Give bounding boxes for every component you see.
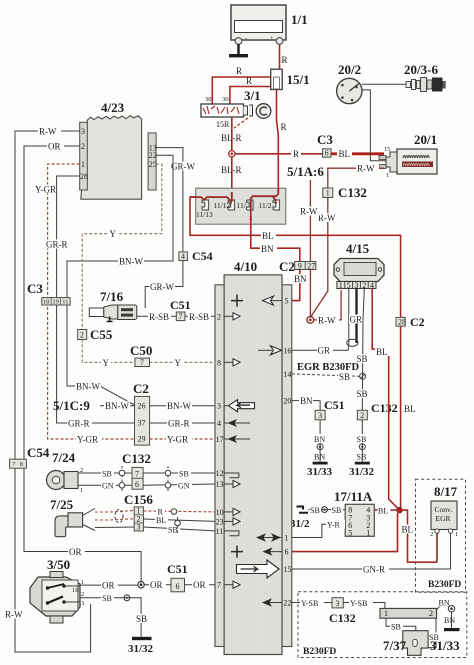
ignition switch 3/1 bbox=[201, 88, 271, 129]
ECU pin 4 bbox=[217, 419, 250, 428]
wire GR 4/15 pin 5 to ECU pin 16 bbox=[292, 289, 349, 356]
svg-text:R-W: R-W bbox=[357, 164, 375, 174]
svg-text:BL: BL bbox=[339, 149, 351, 159]
connector C132 pins 7 6 bbox=[122, 451, 151, 489]
svg-text:11/13: 11/13 bbox=[196, 210, 213, 219]
svg-text:17/11A: 17/11A bbox=[334, 489, 373, 504]
wire GR-W 4/23 pin 13 to temp sensor 7/16 bbox=[145, 148, 196, 308]
svg-text:SB: SB bbox=[339, 372, 350, 382]
wire SB 7/24 to C132/7 to ECU pin 12 bbox=[78, 469, 215, 479]
svg-text:11: 11 bbox=[62, 298, 68, 305]
svg-text:GN-R: GN-R bbox=[363, 565, 385, 575]
wire BN-W 5/1C:9 to C2/26 bbox=[100, 401, 135, 411]
svg-text:R: R bbox=[282, 55, 288, 65]
svg-text:R-SB: R-SB bbox=[149, 312, 169, 322]
svg-text:SB: SB bbox=[391, 623, 401, 632]
svg-text:OR: OR bbox=[193, 580, 206, 590]
svg-text:8: 8 bbox=[20, 461, 23, 468]
wire BL relay pin 4 to node BL bbox=[374, 506, 399, 516]
wire OR 3/50 to node OR bbox=[80, 581, 138, 591]
knock sensor 7/25 bbox=[50, 497, 95, 537]
svg-text:2: 2 bbox=[429, 609, 433, 618]
svg-text:C55: C55 bbox=[90, 327, 113, 342]
wire SB ground 31/2 to relay pin 8 bbox=[308, 505, 345, 515]
svg-text:Y-GR: Y-GR bbox=[35, 185, 56, 195]
EGR converter housing 8/17 (dashed B230FD box) bbox=[416, 479, 466, 592]
svg-text:4: 4 bbox=[181, 252, 185, 261]
svg-text:4: 4 bbox=[217, 419, 221, 428]
wire SB 3/50 to ground 31/32 bbox=[80, 593, 148, 636]
svg-text:31/32: 31/32 bbox=[349, 466, 375, 478]
wire R fuse down to fuse box 5/1A:6 bbox=[277, 90, 287, 193]
ECU pin 22 bbox=[262, 598, 291, 607]
svg-text:31/33: 31/33 bbox=[307, 466, 333, 478]
wire BN ECU pin 20 to C51/3 bbox=[292, 396, 320, 410]
wire BL-R junction to fuse box bbox=[221, 157, 242, 192]
oxygen sensor 7/37 bbox=[383, 631, 428, 656]
svg-text:GN: GN bbox=[102, 482, 114, 491]
svg-text:R: R bbox=[293, 149, 299, 159]
svg-text:-: - bbox=[245, 35, 247, 42]
svg-text:20: 20 bbox=[283, 397, 291, 406]
wire BN C51/3 to ground 31/33 bbox=[313, 420, 327, 462]
svg-text:OR: OR bbox=[48, 142, 61, 152]
wire R-W C132/1 down to node R-W bbox=[310, 198, 339, 318]
svg-text:BL: BL bbox=[404, 404, 416, 414]
svg-text:20/2: 20/2 bbox=[338, 62, 361, 77]
wire R-SB 7/16 to C51/7 to ECU pin 2 bbox=[137, 312, 215, 322]
svg-text:5: 5 bbox=[347, 281, 351, 290]
svg-text:6: 6 bbox=[176, 582, 180, 591]
svg-text:11: 11 bbox=[216, 527, 224, 536]
svg-text:28: 28 bbox=[80, 172, 88, 181]
ECU pin 8 bbox=[217, 358, 240, 367]
shield symbol 7/24 pair (left) bbox=[119, 466, 125, 492]
wire SB dashed EGR B230FD variant to ECU pin 14 bbox=[292, 362, 360, 382]
distributor 20/2 bbox=[337, 62, 362, 104]
svg-text:GR: GR bbox=[318, 346, 331, 356]
svg-text:SB: SB bbox=[357, 389, 368, 399]
svg-text:3: 3 bbox=[318, 411, 322, 420]
wire R junction to connector C3/6 bbox=[235, 149, 323, 159]
wire BL node to ECU pin 6 bbox=[292, 510, 400, 551]
svg-text:BN: BN bbox=[300, 396, 313, 406]
svg-text:22: 22 bbox=[283, 599, 291, 608]
svg-text:2: 2 bbox=[217, 312, 221, 321]
wire Y-SB ECU pin 22 to C132/3 bbox=[292, 598, 332, 608]
wire internal fuse box bus (right) bbox=[251, 188, 278, 211]
connector C3 pin 6 bbox=[317, 132, 333, 158]
wire BL C156/2 to ECU pin 23 bbox=[143, 515, 215, 525]
svg-text:BN: BN bbox=[444, 616, 455, 625]
svg-text:BN: BN bbox=[439, 599, 450, 608]
svg-text:R-W: R-W bbox=[39, 127, 57, 137]
shield symbol 7/25 bbox=[115, 510, 123, 523]
connector C156 pins 1 2 3 bbox=[124, 492, 153, 532]
svg-text:Y-SB: Y-SB bbox=[301, 599, 318, 608]
ECU pin 10 bbox=[216, 508, 240, 517]
svg-text:1/1: 1/1 bbox=[291, 12, 308, 27]
fuse 15/1 bbox=[271, 69, 310, 89]
wire SB C132/2 to ground 31/32 bbox=[356, 420, 369, 462]
EGR converter 8/17 bbox=[430, 501, 458, 538]
svg-text:25: 25 bbox=[149, 160, 157, 169]
ground (battery negative) bbox=[229, 44, 248, 57]
svg-text:R: R bbox=[246, 76, 252, 86]
ignition coil 20/1 bbox=[379, 132, 437, 179]
svg-text:Conv.: Conv. bbox=[435, 505, 453, 514]
connector C54 pins 7 8 bbox=[10, 445, 50, 468]
svg-text:Y: Y bbox=[110, 229, 117, 239]
svg-text:1: 1 bbox=[366, 528, 370, 537]
wire BN fuse 11/3 to C2/9 bbox=[251, 211, 300, 262]
svg-text:Y-R: Y-R bbox=[327, 521, 341, 530]
connector C132 pin 3 bbox=[329, 598, 356, 625]
svg-text:GR-W: GR-W bbox=[150, 282, 174, 292]
wire distributor to spark plugs bbox=[362, 83, 406, 85]
wire BL EGR terminal 2 down bbox=[436, 533, 438, 562]
svg-text:20/3-6: 20/3-6 bbox=[404, 62, 438, 77]
svg-text:7: 7 bbox=[179, 312, 183, 321]
node SB screw joint bbox=[322, 507, 328, 513]
svg-text:Y-GR: Y-GR bbox=[77, 435, 98, 445]
svg-text:C2: C2 bbox=[133, 381, 149, 396]
svg-text:C3: C3 bbox=[317, 132, 333, 147]
svg-text:15R: 15R bbox=[216, 120, 230, 129]
svg-text:C50: C50 bbox=[130, 343, 152, 358]
node BL junction bbox=[396, 507, 402, 513]
ground 31/33 (bottom right) bbox=[430, 628, 460, 653]
svg-text:BN-W: BN-W bbox=[167, 401, 191, 411]
svg-text:2: 2 bbox=[430, 531, 433, 538]
connector C132 pin 1 bbox=[323, 185, 367, 200]
svg-text:4/15: 4/15 bbox=[346, 241, 370, 256]
svg-text:BN-W: BN-W bbox=[119, 257, 143, 267]
battery 1/1 bbox=[231, 5, 308, 44]
wire SB C156/3 to ECU pin 11 bbox=[143, 517, 215, 535]
wire GR 4/15 pin 3 (shielded) bbox=[349, 289, 365, 344]
connector C55 pin 2 bbox=[78, 327, 113, 342]
svg-text:C132: C132 bbox=[122, 451, 151, 466]
svg-text:BN: BN bbox=[294, 274, 307, 284]
svg-text:1: 1 bbox=[285, 534, 289, 543]
svg-text:OR: OR bbox=[150, 580, 163, 590]
svg-text:BL: BL bbox=[378, 506, 388, 515]
svg-text:Y: Y bbox=[103, 358, 110, 368]
svg-text:GR: GR bbox=[350, 315, 363, 325]
svg-text:6: 6 bbox=[135, 480, 139, 489]
svg-text:5/1A:6: 5/1A:6 bbox=[287, 164, 324, 179]
svg-text:13: 13 bbox=[216, 480, 224, 489]
wire GR-R C2/37 to ECU pin 4 bbox=[150, 419, 215, 429]
wire 7/25 to C156 bbox=[95, 511, 134, 528]
wire R battery to fuse 15/1 bbox=[280, 44, 288, 69]
svg-text:10: 10 bbox=[216, 508, 224, 517]
connector C51 pin 6 bbox=[167, 562, 188, 592]
svg-text:C132: C132 bbox=[329, 611, 356, 625]
svg-text:14: 14 bbox=[283, 370, 291, 379]
fuse 11/2 bbox=[259, 200, 280, 210]
wire BL C2/28 down to node BL bbox=[401, 326, 416, 508]
svg-text:C54: C54 bbox=[27, 445, 50, 460]
svg-text:19: 19 bbox=[52, 298, 59, 305]
wire BL node to EGR converter bbox=[400, 510, 438, 562]
svg-text:C156: C156 bbox=[124, 492, 153, 507]
node SB screw joint 3/50 bbox=[124, 595, 130, 601]
instrument cluster 4/23 bbox=[80, 100, 157, 199]
svg-text:B230FD: B230FD bbox=[428, 580, 461, 590]
svg-text:15/1: 15/1 bbox=[287, 72, 310, 87]
svg-text:GR-R: GR-R bbox=[168, 419, 190, 429]
connector oval (distributor pick-up) bbox=[347, 339, 358, 346]
ECU pin 7 bbox=[217, 581, 240, 590]
ECU pin 14 bbox=[283, 370, 291, 379]
svg-text:3: 3 bbox=[81, 600, 84, 607]
wire Y-SB C132/3 to heater bar bbox=[343, 598, 385, 608]
svg-text:EGR: EGR bbox=[436, 514, 451, 523]
wire BL C3/6 to ignition coil terminal 15 bbox=[331, 146, 391, 159]
connector C2 pins 26 37 29 bbox=[133, 381, 150, 445]
svg-text:37: 37 bbox=[138, 418, 146, 427]
wire Y dashed 4/23 pin 25 to C55/2 bbox=[82, 164, 162, 330]
temperature sensor 7/16 bbox=[89, 289, 137, 322]
svg-text:Y-GR: Y-GR bbox=[167, 435, 188, 445]
wire BL 4/15 pin 4 to node BL bbox=[372, 289, 399, 511]
ECU pin 6 bbox=[231, 546, 289, 558]
svg-text:GR-R: GR-R bbox=[68, 419, 90, 429]
svg-text:11/2: 11/2 bbox=[259, 201, 272, 210]
fuse box 5/1A:6 bbox=[196, 164, 325, 224]
svg-text:GR-R: GR-R bbox=[46, 240, 68, 250]
svg-text:18: 18 bbox=[43, 298, 50, 305]
wire BN C2/9 to ECU pin 5 bbox=[292, 270, 307, 301]
svg-text:6: 6 bbox=[325, 149, 329, 158]
ground 31/33 (centre) bbox=[307, 462, 333, 478]
svg-text:R: R bbox=[236, 66, 242, 76]
svg-text:8/17: 8/17 bbox=[434, 484, 458, 499]
svg-text:17: 17 bbox=[216, 435, 224, 444]
svg-text:5: 5 bbox=[285, 297, 289, 306]
svg-text:7/37: 7/37 bbox=[383, 638, 407, 653]
svg-text:3: 3 bbox=[81, 127, 85, 136]
svg-text:3/50: 3/50 bbox=[47, 557, 70, 572]
svg-text:7: 7 bbox=[217, 581, 221, 590]
svg-text:1: 1 bbox=[80, 487, 83, 494]
fuse 11/12 bbox=[214, 200, 235, 210]
node SB / EGR splice bbox=[360, 373, 366, 379]
svg-text:7: 7 bbox=[135, 469, 139, 478]
svg-text:11/12: 11/12 bbox=[214, 201, 231, 210]
svg-text:9: 9 bbox=[298, 261, 302, 270]
svg-text:BL: BL bbox=[156, 516, 166, 525]
svg-text:C54: C54 bbox=[192, 249, 213, 263]
svg-text:R: R bbox=[281, 122, 287, 132]
ECU pin 2 bbox=[217, 312, 240, 321]
svg-text:BN: BN bbox=[314, 453, 325, 462]
svg-text:3: 3 bbox=[336, 599, 340, 608]
wire R-W node to power stage 4/15 pin 1 bbox=[314, 290, 342, 325]
svg-text:SB: SB bbox=[179, 469, 189, 478]
svg-text:R-W: R-W bbox=[5, 610, 23, 620]
rpm sensor 7/24 bbox=[47, 450, 84, 494]
wire Y-GR dashed C2/29 to ECU pin 17 bbox=[150, 435, 215, 445]
svg-text:5/1C:9: 5/1C:9 bbox=[53, 398, 90, 413]
svg-text:SB: SB bbox=[102, 469, 112, 478]
ECU pin 23 bbox=[216, 517, 240, 526]
wire R-W 4/23 pin 3 to throttle switch 3/50 bbox=[4, 127, 91, 653]
svg-text:B230FD: B230FD bbox=[303, 647, 336, 657]
power stage 4/15 bbox=[334, 241, 384, 290]
wire SB heater bar 2 to 7/37 bbox=[428, 618, 441, 647]
svg-text:4: 4 bbox=[370, 281, 374, 290]
svg-text:OR: OR bbox=[102, 581, 115, 591]
ECU pin 16 bbox=[258, 346, 291, 356]
svg-text:BN-W: BN-W bbox=[105, 401, 129, 411]
ground 31/2 bbox=[290, 507, 310, 531]
ECU pin 13 bbox=[216, 480, 240, 489]
svg-text:GN: GN bbox=[178, 482, 190, 491]
svg-text:BL-R: BL-R bbox=[221, 165, 242, 175]
svg-text:R-SB: R-SB bbox=[189, 312, 209, 322]
svg-text:SB: SB bbox=[310, 506, 320, 515]
wire GR-R 4/23 pin 28 to C2/37 bbox=[45, 176, 135, 429]
svg-text:C51: C51 bbox=[167, 562, 188, 576]
svg-text:BN: BN bbox=[261, 244, 274, 254]
svg-text:SB: SB bbox=[332, 506, 342, 515]
connector C51 pin 7 bbox=[170, 298, 191, 321]
wire BN joint to ground 31/33 bbox=[444, 612, 455, 628]
wire BN heater bar 2 to ground joint bbox=[436, 598, 452, 610]
svg-text:18: 18 bbox=[72, 587, 79, 594]
ECU pin 17 bbox=[216, 435, 251, 444]
svg-text:29: 29 bbox=[138, 435, 146, 444]
svg-text:31/2: 31/2 bbox=[290, 518, 310, 530]
svg-text:BN: BN bbox=[314, 435, 325, 444]
svg-text:2: 2 bbox=[80, 331, 84, 340]
wire distributor to coil HT tower bbox=[362, 90, 387, 161]
wire BN-W C2/26 to ECU pin 3 bbox=[150, 401, 215, 411]
ECU pin 11 bbox=[216, 527, 239, 536]
wire internal fuse box bus (left) bbox=[190, 192, 232, 201]
svg-text:BL-R: BL-R bbox=[221, 133, 242, 143]
svg-text:SB: SB bbox=[357, 453, 367, 462]
wire Y dashed C55/2 to C50/7 to ECU pin 8 bbox=[82, 340, 215, 368]
svg-text:30: 30 bbox=[205, 96, 212, 103]
connector C51 pin 3 bbox=[315, 398, 345, 420]
splice 5/1C:9 bbox=[53, 398, 90, 413]
svg-text:1: 1 bbox=[386, 172, 389, 179]
ground 31/32 (bottom left) bbox=[128, 637, 154, 655]
connector C2 pins 9 and 27 bbox=[279, 259, 316, 274]
ECU pin 15 bbox=[237, 560, 292, 578]
ECU pin 5 bbox=[231, 295, 289, 307]
svg-text:2: 2 bbox=[81, 591, 84, 598]
svg-text:5: 5 bbox=[348, 528, 352, 537]
svg-text:C51: C51 bbox=[170, 298, 191, 312]
svg-text:16: 16 bbox=[283, 346, 291, 355]
svg-text:3: 3 bbox=[354, 281, 358, 290]
svg-text:Y: Y bbox=[175, 358, 182, 368]
svg-text:BN-W: BN-W bbox=[76, 382, 100, 392]
svg-text:7/25: 7/25 bbox=[50, 497, 74, 512]
svg-text:20/1: 20/1 bbox=[414, 132, 437, 147]
wire R-W coil terminal 1 to C132/1 bbox=[328, 164, 384, 189]
connector C50 pin 7 bbox=[130, 343, 152, 367]
svg-text:OR: OR bbox=[69, 547, 82, 557]
wire R fuse to ignition switch terminal 30 (right) bbox=[230, 76, 271, 105]
svg-text:C132: C132 bbox=[371, 401, 398, 415]
node OR junction bbox=[138, 582, 144, 588]
svg-text:C2: C2 bbox=[410, 315, 425, 329]
svg-text:C2: C2 bbox=[279, 259, 295, 274]
svg-text:R-W: R-W bbox=[318, 315, 336, 325]
wire Y-GR dashed 4/23 pin 1 to C2/29 bbox=[34, 164, 135, 445]
fuse 11/3 bbox=[237, 200, 254, 222]
wire SB heater bar 1 to 7/37 bbox=[386, 618, 416, 631]
wire SB 4/15 pin 2 down to C132/2 bbox=[356, 289, 369, 411]
wire BN-W 4/23 pin 22 to C3/11 bbox=[67, 155, 173, 297]
svg-text:8: 8 bbox=[217, 358, 221, 367]
svg-text:BL: BL bbox=[402, 525, 414, 535]
svg-text:28: 28 bbox=[398, 318, 406, 327]
svg-text:1: 1 bbox=[455, 531, 458, 538]
relay 17/11A bbox=[334, 489, 374, 537]
svg-text:4/23: 4/23 bbox=[101, 100, 125, 115]
svg-text:22: 22 bbox=[149, 151, 157, 160]
ECU pin 12 bbox=[216, 469, 239, 478]
svg-text:BL: BL bbox=[376, 347, 388, 357]
svg-text:7/24: 7/24 bbox=[52, 450, 76, 465]
svg-text:15: 15 bbox=[283, 565, 291, 574]
svg-text:SB: SB bbox=[102, 594, 112, 603]
svg-text:2: 2 bbox=[362, 281, 366, 290]
ECU pin 20 bbox=[283, 397, 291, 406]
ECU pin 1 bbox=[256, 533, 289, 542]
svg-text:C51: C51 bbox=[324, 398, 345, 412]
connector C3 pins 18 19 11 bbox=[27, 281, 70, 305]
svg-text:C3: C3 bbox=[27, 281, 43, 296]
engine variant box B230FD (bottom) bbox=[298, 592, 467, 658]
svg-text:R-W: R-W bbox=[300, 207, 318, 217]
fuse 11/13 bbox=[196, 200, 213, 219]
svg-text:Y-SB: Y-SB bbox=[350, 599, 367, 608]
svg-text:7: 7 bbox=[140, 358, 144, 367]
svg-text:BL: BL bbox=[262, 231, 274, 241]
wire R-W stub from 5/1A:6 to C2/27 bbox=[299, 180, 321, 262]
node R-W junction bbox=[307, 317, 314, 324]
svg-text:6: 6 bbox=[285, 548, 289, 557]
svg-text:3: 3 bbox=[217, 402, 221, 411]
node junction BL-R / R bbox=[229, 151, 235, 157]
svg-text:31/32: 31/32 bbox=[128, 643, 154, 655]
svg-text:2: 2 bbox=[360, 411, 364, 420]
ECU 4/10 bbox=[215, 259, 292, 655]
svg-text:SB: SB bbox=[357, 435, 367, 444]
shield symbol 7/24 pair (right) bbox=[165, 466, 171, 492]
wire OR node to C51/6 to ECU pin 7 bbox=[144, 580, 215, 590]
wire R-W C2/27 to node R-W bbox=[309, 270, 311, 318]
wire Y-R relay pin 6 to ECU pin 1 bbox=[292, 520, 345, 538]
svg-text:31/33: 31/33 bbox=[430, 638, 460, 653]
wire R fuse to ignition switch terminal 30 (left) bbox=[212, 66, 270, 105]
svg-text:3: 3 bbox=[137, 523, 141, 532]
wire BN-W C3/11 to C2/26 bbox=[67, 305, 135, 405]
oxygen sensor heater bar bbox=[380, 608, 437, 618]
svg-text:2: 2 bbox=[81, 142, 85, 151]
ECU pin 3 bbox=[217, 400, 255, 412]
svg-text:1: 1 bbox=[326, 189, 330, 198]
wire GN-R ECU pin 15 to EGR terminal 1 bbox=[292, 533, 451, 574]
